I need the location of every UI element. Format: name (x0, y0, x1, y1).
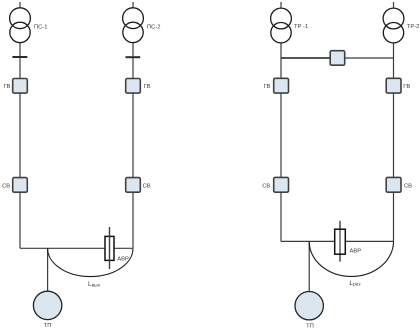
svg-text:ГВ: ГВ (403, 84, 410, 90)
wire: ТР-2 top stub (393, 2, 395, 8)
disconnect tick on ПС-2 feeder (126, 56, 141, 58)
wire: left scheme bottom horizontal bus (20, 247, 133, 249)
wire: ПС-2 feeder down to bottom bus (132, 43, 134, 249)
breaker ГВ (ТР-2) (386, 78, 401, 93)
breaker СВ (right scheme, feeder 1) (274, 177, 289, 192)
svg-text:АВР: АВР (350, 249, 362, 255)
svg-text:ПС-1: ПС-1 (34, 24, 48, 30)
wire: drop to ТП (left scheme) (47, 248, 49, 291)
wire: ТР-2 feeder down to bottom bus (393, 43, 395, 242)
ТП circle (left scheme) (33, 291, 61, 319)
svg-text:ТП: ТП (44, 323, 52, 329)
svg-text:ГВ: ГВ (144, 84, 151, 90)
wire: ПС-1 top stub (19, 2, 21, 8)
cable arc Lвых (left scheme) (48, 248, 133, 276)
wire: ТР-1 feeder down to bottom bus (280, 43, 282, 242)
wire: drop to ТП (right scheme) (308, 241, 310, 291)
wire: right scheme bottom horizontal bus (281, 240, 394, 242)
breaker СВ (left scheme, feeder 2) (126, 178, 141, 193)
ТП circle (right scheme) (295, 292, 323, 320)
breaker СВ (left scheme, feeder 1) (13, 178, 28, 193)
svg-text:АВР: АВР (117, 257, 129, 263)
cable arc Lрез (right scheme) (309, 242, 393, 277)
svg-text:ГВ: ГВ (263, 84, 270, 90)
transformer ПС-1 (10, 8, 31, 43)
svg-text:СВ: СВ (404, 184, 412, 190)
transformer ПС-2 (123, 8, 144, 43)
svg-text:Lвых: Lвых (88, 281, 101, 289)
svg-text:СВ: СВ (262, 184, 270, 190)
АВР device (right scheme) (335, 221, 346, 262)
svg-text:ТР -1: ТР -1 (294, 24, 308, 30)
transformer ТР-2 (383, 8, 404, 43)
breaker ГВ (ТР-1) (274, 78, 289, 93)
wire: ТР-1 top stub (280, 2, 282, 8)
svg-text:СВ: СВ (2, 183, 10, 189)
svg-text:ТП: ТП (306, 323, 314, 329)
svg-text:ТР-2: ТР-2 (407, 24, 420, 30)
wire: ПС-2 top stub (132, 2, 134, 8)
disconnect tick on ПС-1 feeder (12, 56, 27, 58)
transformer ТР-1 (271, 8, 292, 43)
breaker ГВ (ПС-1) (13, 79, 28, 94)
svg-text:ГВ: ГВ (3, 84, 10, 90)
svg-text:Lрез: Lрез (349, 280, 361, 288)
wire: tie line right segment (box to ТР-2) (345, 57, 394, 59)
wire: tie line left segment (ТР-1 to box) (281, 57, 330, 59)
АВР device (left scheme) (105, 227, 114, 269)
svg-text:ПС-2: ПС-2 (147, 24, 161, 30)
tie breaker box (right scheme) (330, 51, 345, 65)
breaker СВ (right scheme, feeder 2) (386, 177, 401, 192)
wire: ПС-1 feeder down to bottom bus (19, 43, 21, 249)
svg-text:СВ: СВ (143, 183, 151, 189)
breaker ГВ (ПС-2) (126, 79, 141, 94)
